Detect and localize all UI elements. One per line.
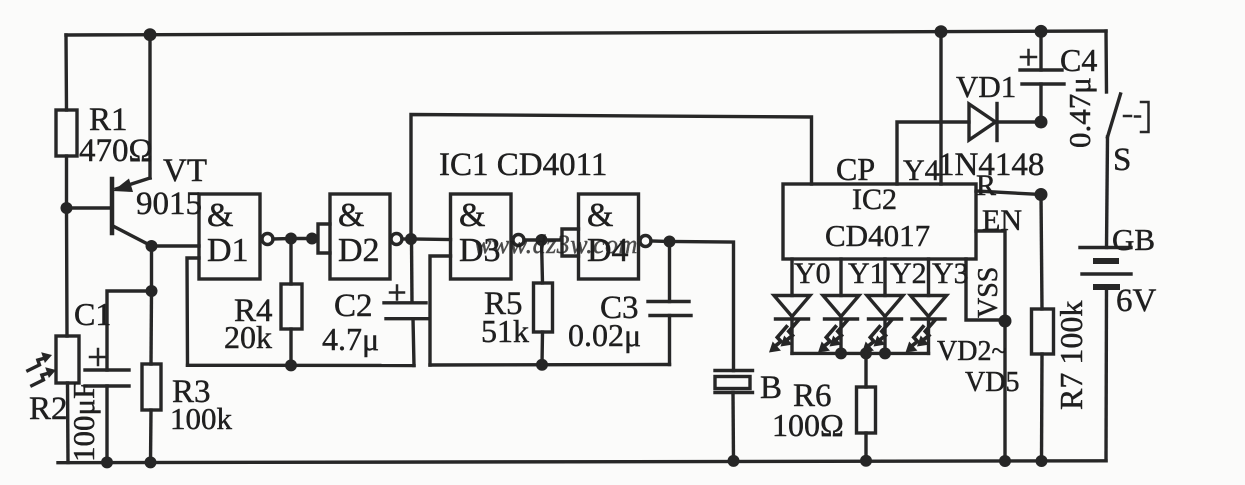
transistor VT 9015	[112, 35, 152, 246]
svg-text:Y3: Y3	[932, 257, 969, 290]
svg-text:100k: 100k	[170, 401, 233, 436]
capacitor C4	[1020, 31, 1064, 122]
wire D1 output to node	[273, 237, 291, 241]
wire D3 output to node	[524, 238, 542, 241]
svg-text:&: &	[338, 197, 364, 234]
resistor R1	[56, 110, 77, 156]
svg-text:&: &	[459, 197, 485, 234]
pin Y3 wire	[927, 259, 930, 296]
svg-text:51k: 51k	[481, 313, 529, 349]
wire LED cathode bus	[792, 352, 929, 355]
node R6 bottom on rail	[860, 455, 872, 467]
wire node to D2 bracket	[291, 237, 312, 240]
wire D3 lower input feedback	[430, 256, 451, 365]
buzzer B	[715, 371, 753, 461]
svg-text:S: S	[1113, 142, 1131, 178]
svg-text:C4: C4	[1060, 42, 1097, 78]
resistor R6	[857, 353, 876, 460]
resistor R5	[534, 240, 553, 365]
node R4 bottom	[285, 359, 297, 371]
wire D4 output to node	[651, 239, 670, 243]
svg-text:VD2~: VD2~	[937, 336, 1007, 367]
node D1 output	[285, 233, 297, 245]
node VD1 cathode	[1035, 116, 1048, 129]
svg-text:C2: C2	[334, 288, 373, 324]
capacitor C1	[85, 349, 129, 463]
photoresistor R2	[56, 336, 79, 463]
pin Y1 wire	[839, 259, 842, 296]
wire feedback up to CP	[411, 115, 812, 240]
node VDD on top rail	[935, 25, 948, 38]
svg-text:&: &	[207, 197, 233, 234]
svg-text:470Ω: 470Ω	[79, 133, 153, 169]
node D2 output	[405, 233, 417, 245]
svg-text:Y0: Y0	[794, 257, 831, 290]
svg-text:&: &	[587, 197, 613, 234]
node C1 bottom on rail	[101, 456, 113, 468]
wire top supply rail	[66, 31, 1106, 35]
node C1/R3 junction	[146, 285, 158, 297]
switch S	[1106, 31, 1149, 248]
wire D2 output to node	[402, 237, 411, 240]
wire base node down to R2	[65, 208, 69, 336]
svg-text:9015: 9015	[136, 186, 202, 222]
svg-text:100Ω: 100Ω	[772, 407, 844, 443]
nand gate D3	[451, 194, 525, 279]
wire D4 tied-input bracket	[542, 229, 579, 256]
nand gate D1	[199, 194, 273, 279]
pin EN wire	[976, 231, 1005, 461]
resistor R4	[281, 239, 302, 366]
svg-text:Y2: Y2	[890, 257, 927, 290]
svg-text:1N4148: 1N4148	[938, 147, 1044, 183]
svg-text:Y1: Y1	[848, 257, 885, 290]
diode VD1 1N4148	[969, 104, 1041, 141]
svg-text:VD5: VD5	[965, 367, 1019, 398]
svg-text:Y4: Y4	[903, 154, 940, 187]
node C4 top on rail	[1035, 25, 1048, 38]
wire D4 node to buzzer	[670, 242, 734, 371]
node R5 bottom	[536, 359, 548, 371]
node VT top on rail	[144, 28, 157, 41]
wire junction to C1 top	[107, 291, 152, 370]
svg-text:CD4017: CD4017	[825, 218, 930, 253]
wire emitter node down	[150, 246, 153, 291]
svg-text:GB: GB	[1112, 222, 1155, 257]
wire emitter node to D1 input	[152, 244, 200, 247]
svg-text:6V: 6V	[1116, 283, 1157, 319]
LED VD4	[862, 296, 903, 354]
svg-text:C1: C1	[74, 296, 111, 332]
nand gate D4	[579, 194, 652, 279]
svg-text:CP: CP	[836, 151, 875, 187]
pin Y4 wire	[897, 122, 969, 184]
battery GB	[1080, 248, 1131, 461]
pin R wire	[976, 191, 1041, 195]
arrows light into R2	[28, 349, 56, 392]
wire D1 lower input feedback	[187, 258, 199, 365]
pin VDD wire from top rail	[939, 32, 942, 184]
node R junction	[1035, 188, 1048, 201]
svg-text:D1: D1	[207, 232, 249, 269]
wire left branch top (rail to R1)	[64, 35, 68, 110]
wire node to D3 input	[411, 237, 451, 241]
IC2 CD4017 box	[783, 184, 976, 259]
node base-left junction	[61, 202, 73, 214]
capacitor C3	[648, 242, 691, 365]
node buzzer bottom on rail	[728, 455, 740, 467]
svg-text:www.dz3w.com: www.dz3w.com	[474, 230, 638, 259]
pin Y2 wire	[883, 259, 886, 296]
LED VD5	[906, 296, 947, 354]
node R3 bottom on rail	[145, 456, 157, 468]
svg-text:VD1: VD1	[956, 69, 1016, 104]
wire D2 tied-input bracket	[312, 224, 330, 253]
node R6 tap on bus	[860, 347, 872, 359]
node D2 bracket	[306, 233, 318, 245]
svg-text:EN: EN	[982, 204, 1022, 237]
node VSS junction	[999, 315, 1012, 328]
resistor R3	[142, 364, 161, 462]
svg-text:0.02μ: 0.02μ	[568, 317, 641, 353]
svg-text:D2: D2	[338, 232, 380, 269]
node R7 bottom on rail	[1036, 455, 1048, 467]
svg-text:0.47μ: 0.47μ	[1062, 77, 1097, 148]
svg-text:100μF: 100μF	[66, 382, 101, 462]
node LED2 on bus	[835, 347, 847, 359]
pin Y0 wire	[790, 259, 793, 296]
wire bottom ground rail	[58, 461, 1106, 463]
svg-text:IC2: IC2	[852, 183, 897, 216]
pin VSS cell	[966, 259, 1005, 320]
resistor R7	[1032, 195, 1054, 462]
svg-text:VSS: VSS	[973, 267, 1004, 318]
node EN line on bottom rail	[999, 455, 1011, 467]
LED VD2	[769, 296, 810, 354]
svg-text:R7 100k: R7 100k	[1053, 301, 1089, 410]
node emitter junction	[146, 240, 158, 252]
svg-text:20k: 20k	[224, 319, 272, 355]
svg-text:4.7μ: 4.7μ	[322, 321, 379, 357]
svg-text:R2: R2	[29, 391, 68, 427]
wire oscillator2 bottom rail	[430, 363, 670, 367]
node LED3 on bus	[879, 347, 891, 359]
node D3 output	[536, 234, 548, 246]
wire junction down to R3	[149, 291, 153, 364]
LED VD3	[818, 296, 859, 354]
wire R1 to base node	[65, 156, 68, 208]
capacitor C2	[384, 239, 428, 366]
node D4 output	[664, 236, 676, 248]
wire base horizontal to VT	[67, 206, 113, 209]
svg-text:B: B	[760, 370, 782, 406]
nand gate D2	[330, 194, 402, 279]
svg-text:VT: VT	[163, 153, 207, 189]
svg-text:IC1 CD4011: IC1 CD4011	[439, 147, 607, 183]
wire oscillator1 bottom rail	[188, 364, 415, 368]
